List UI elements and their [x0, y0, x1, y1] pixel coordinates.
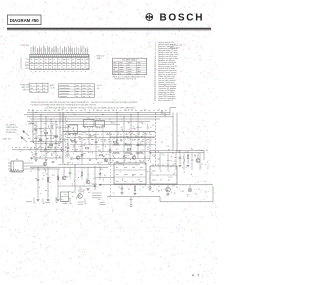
svg-text:R1: R1 — [34, 125, 36, 127]
link wire H2 — [38, 135, 56, 137]
wire bus ACC — [24, 114, 170, 116]
svg-text:D3: D3 — [176, 187, 178, 189]
wire out R1 — [150, 149, 204, 151]
resistor R6 — [99, 154, 102, 156]
transistor Q9 — [43, 162, 46, 165]
resistor R18 (zigzag) — [57, 175, 59, 180]
misc wiring detail (right zone) — [158, 148, 208, 169]
feeder wire V2 — [64, 117, 66, 158]
link wire H3 — [34, 143, 60, 145]
svg-text:R11: R11 — [52, 175, 55, 177]
svg-text:L1: L1 — [185, 152, 187, 154]
diode D2 — [149, 185, 152, 189]
module box A1 — [114, 161, 146, 184]
feeder wire V3 (dashed) — [155, 112, 157, 166]
connector X1 pin ticks — [31, 53, 87, 55]
wire drop BL5 — [94, 166, 96, 190]
svg-text:C5: C5 — [39, 146, 41, 148]
svg-text:R9: R9 — [182, 191, 184, 193]
svg-text:Filter capacitor C8: Filter capacitor C8 — [158, 99, 173, 102]
svg-text:R14: R14 — [100, 169, 103, 171]
wire drop W2 — [40, 115, 42, 152]
wire drop BL1 — [37, 167, 39, 198]
wire drop W4 — [50, 119, 52, 150]
resistor R20 — [81, 167, 83, 180]
wire X4-a — [23, 162, 33, 164]
ground G10 — [166, 194, 169, 196]
wire net N2 — [66, 137, 155, 139]
footnote lines — [30, 101, 137, 110]
title box DIAGRAM #50 — [8, 15, 42, 25]
wire row link — [110, 136, 155, 138]
wire drop M10 — [130, 115, 132, 152]
label MFB right of connector — [97, 56, 106, 60]
svg-text:T2: T2 — [42, 173, 44, 175]
svg-text:AMP /: AMP / — [50, 84, 55, 87]
legend list — [154, 41, 179, 102]
svg-text:R7: R7 — [50, 138, 52, 140]
wire net N1 — [66, 123, 120, 125]
svg-text:C9: C9 — [102, 145, 104, 147]
capacitor C5 — [95, 142, 98, 143]
transistor Q1 — [76, 156, 80, 160]
label row wire — [12, 148, 64, 152]
wire drops right — [160, 153, 200, 170]
svg-text:T1: T1 — [156, 189, 158, 191]
IC U3 — [68, 125, 78, 136]
capacitor C8 — [137, 145, 140, 146]
wire X4-c — [23, 168, 60, 170]
spine wire lower — [30, 140, 63, 142]
wire bus B+ — [27, 111, 170, 113]
wire bus GND — [27, 120, 150, 122]
resistor R19 — [134, 185, 136, 193]
coil L2 — [28, 123, 34, 125]
connector X1 pin numbers — [31, 70, 86, 72]
capacitor C1 — [35, 130, 38, 131]
antenna arrow A1 — [22, 130, 29, 136]
capacitor C6 — [109, 150, 112, 151]
connector X1 terminal bar — [30, 54, 89, 56]
IC U1 — [84, 118, 95, 129]
transistor Q6 — [166, 185, 171, 192]
antenna arrow A2 — [20, 136, 27, 142]
svg-text:8 627 004: 8 627 004 — [21, 45, 29, 47]
wire drop M8 — [116, 112, 118, 144]
resistor R3 (zigzag) — [54, 136, 59, 138]
svg-text:TV5: TV5 — [26, 59, 29, 61]
ground G4 — [186, 165, 189, 167]
diode D1 — [94, 184, 97, 187]
table note — [113, 75, 146, 80]
wire net N6 — [58, 164, 140, 166]
svg-text:C2: C2 — [84, 143, 86, 145]
wire net N5 — [70, 158, 150, 160]
svg-text:31 GND BN: 31 GND BN — [6, 132, 16, 134]
wire drop M11 — [137, 112, 139, 158]
component designators — [30, 121, 200, 193]
svg-text:T1: T1 — [126, 145, 128, 147]
capacitor C13 — [99, 167, 102, 180]
wire to module A1 — [95, 177, 114, 179]
label block Q5 — [92, 193, 102, 198]
section divider (dashed) — [110, 159, 112, 199]
resistor R17 — [47, 178, 49, 182]
connector X1 contact grid — [30, 57, 89, 69]
wire right vert — [203, 150, 205, 160]
svg-text:C3: C3 — [30, 171, 32, 173]
misc wiring detail (bottom-left zone) — [31, 168, 103, 201]
ground G5 — [36, 199, 39, 201]
wire net N4 — [66, 151, 150, 153]
wire drop M4 — [88, 128, 90, 145]
ground G2 — [44, 160, 47, 162]
wire drop M13 — [149, 138, 151, 160]
svg-text:C7: C7 — [92, 130, 94, 132]
misc wiring detail (mid zone) — [31, 122, 156, 166]
module box A2 — [150, 164, 177, 184]
page number — [192, 274, 200, 278]
svg-text:AM3: AM3 — [25, 64, 29, 67]
capacitor C4 — [81, 155, 84, 156]
resistor row R13-R15 — [112, 152, 144, 154]
svg-text:T2: T2 — [120, 141, 122, 143]
resistor row R10-R12 — [112, 144, 144, 146]
svg-text:30: 30 — [154, 100, 156, 102]
bottom bus wire — [30, 166, 108, 168]
svg-text:BOSCH: BOSCH — [160, 13, 205, 24]
resistor R8 — [127, 148, 130, 150]
wire drop M9 — [123, 117, 125, 159]
feeder wire V1 (dashed) — [62, 112, 64, 163]
svg-text:C7: C7 — [163, 155, 165, 157]
wire drop W3 — [45, 117, 47, 158]
wire drop W1 — [35, 121, 37, 158]
svg-text:C7: C7 — [198, 189, 200, 191]
resistor R16 — [187, 150, 189, 164]
connector X1 row labels — [21, 58, 29, 71]
capacitor C12 — [69, 167, 72, 178]
Bosch logo text — [160, 13, 205, 24]
transistor Q8 — [86, 167, 90, 184]
wire drop M12 — [144, 132, 146, 165]
wire drop M7 — [109, 132, 111, 165]
resistor R5 — [85, 147, 88, 149]
svg-text:C9: C9 — [66, 177, 68, 179]
svg-text:T1: T1 — [54, 148, 56, 150]
svg-text:U1: U1 — [87, 118, 89, 120]
svg-text:R7: R7 — [128, 189, 130, 191]
ground G9 — [133, 193, 136, 195]
connector box X4 — [8, 159, 23, 172]
svg-text:CD4: CD4 — [25, 62, 29, 64]
capacitor C9 — [179, 150, 182, 164]
svg-text:R1: R1 — [144, 157, 146, 159]
feeder wire V5 — [176, 112, 178, 152]
resistor R7 — [113, 141, 116, 143]
wire net N3 — [70, 144, 155, 146]
wire link bottom-left — [58, 185, 95, 187]
svg-text:C5: C5 — [167, 146, 169, 148]
wire drop M3 — [81, 138, 83, 165]
long bottom wire — [100, 184, 213, 186]
ground G11 — [86, 189, 89, 191]
transistor Q7 — [62, 167, 66, 180]
svg-text:D3: D3 — [66, 121, 68, 123]
pin table T1 — [30, 83, 49, 92]
svg-text:DIAGRAM #50: DIAGRAM #50 — [10, 18, 40, 23]
svg-text:T2: T2 — [73, 147, 75, 149]
svg-text:R11: R11 — [88, 152, 91, 154]
part number right — [170, 45, 182, 49]
wire drop BL3 — [57, 169, 59, 199]
svg-text:L1: L1 — [99, 137, 101, 139]
link wire H5 — [30, 157, 63, 159]
resistor R4 — [71, 140, 74, 142]
svg-text:FM1: FM1 — [25, 68, 29, 70]
svg-text:** CONNECTOR VIEWED FROM WIRE: ** CONNECTOR VIEWED FROM WIRE SIDE. TERM… — [30, 104, 97, 107]
ground G12 — [98, 184, 101, 186]
ground G6 — [46, 199, 49, 201]
svg-text:C5: C5 — [142, 187, 144, 189]
header rule — [7, 29, 211, 31]
Bosch logo emblem — [146, 14, 153, 21]
ground G1 — [34, 160, 37, 162]
feeder wire left V6 — [32, 110, 34, 143]
svg-text:C2: C2 — [44, 130, 46, 132]
wire drop M2 — [74, 132, 76, 152]
bus junction ticks — [35, 112, 138, 122]
capacitor C3 — [67, 148, 70, 149]
svg-text:R7: R7 — [98, 150, 100, 152]
ground G3 — [178, 165, 181, 167]
capacitor C14 — [52, 162, 55, 163]
connector stub P7 — [129, 197, 133, 207]
feeder wire V4 — [172, 112, 174, 150]
misc wiring detail (bottom-right zone) — [122, 164, 207, 197]
svg-text:C2: C2 — [150, 140, 152, 142]
ground G7 — [56, 199, 59, 201]
wire drop BL2 — [47, 167, 49, 198]
svg-text:ENGINE OFF, IGNITION ON: ENGINE OFF, IGNITION ON — [115, 79, 137, 81]
svg-text:D3: D3 — [140, 151, 142, 153]
transistor Q3 — [132, 156, 136, 160]
wire drop W6 — [59, 112, 61, 144]
connector X1 pin labels (rotated) — [31, 46, 88, 53]
wire drop M1 — [67, 138, 69, 159]
svg-text:R11: R11 — [127, 138, 130, 140]
voltage table — [113, 58, 147, 74]
mid label block — [50, 84, 56, 90]
wire X4-b — [23, 165, 46, 167]
link wire H1 — [34, 127, 50, 129]
resistor R1 — [45, 132, 48, 134]
svg-text:4: 4 — [192, 274, 194, 278]
svg-text:C ANT 75Ω: C ANT 75Ω — [2, 137, 12, 140]
svg-text:R7: R7 — [161, 142, 163, 144]
wire drop BL4 — [74, 164, 76, 186]
svg-text:R9: R9 — [79, 134, 81, 136]
capacitor C2 — [40, 140, 43, 141]
svg-text:R1: R1 — [70, 140, 72, 142]
svg-text:C2: C2 — [118, 187, 120, 189]
svg-text:X4: X4 — [16, 159, 18, 161]
svg-text:D1: D1 — [116, 149, 118, 151]
svg-text:7: 7 — [197, 274, 199, 278]
main spine wire — [63, 131, 155, 133]
IC U2 — [96, 119, 105, 129]
ground G8 — [120, 193, 123, 195]
wire drop W5 — [55, 121, 57, 158]
left terminal designations — [6, 124, 19, 135]
relay box K1 — [61, 192, 69, 202]
svg-text:REF 5V: REF 5V — [23, 89, 30, 91]
bottom border step — [107, 186, 213, 202]
svg-text:* WIRING SHOWN FOR VEHICLES WI: * WIRING SHOWN FOR VEHICLES WITH FACTORY… — [30, 101, 137, 104]
tuner label block — [20, 84, 30, 92]
svg-text:U2: U2 — [99, 119, 101, 121]
bus labels — [28, 109, 167, 110]
wire bus MUTE — [30, 118, 160, 120]
wire drop M5 — [95, 132, 97, 159]
svg-text:R1: R1 — [104, 175, 106, 177]
wire bus ILL — [27, 116, 165, 118]
transistor Q2 — [104, 158, 108, 162]
capacitor C11 — [121, 185, 124, 192]
svg-text:L1: L1 — [36, 132, 38, 134]
pin table T2 — [59, 84, 95, 98]
label speaker LF — [26, 197, 106, 204]
transistor Q5 — [75, 186, 82, 198]
bus right bracket — [165, 108, 176, 117]
capacitor C7 — [123, 156, 126, 157]
svg-text:R9: R9 — [158, 159, 160, 161]
wire out R2 — [150, 152, 204, 154]
part number left — [21, 45, 29, 47]
svg-text:CD IN: CD IN — [50, 87, 56, 89]
svg-text:D1: D1 — [147, 147, 149, 149]
resistor R2 — [50, 144, 53, 146]
capacitor C10 — [37, 180, 40, 181]
lamp E1 — [188, 185, 192, 192]
svg-text:C3: C3 — [58, 145, 60, 147]
antenna coil squiggle — [9, 169, 24, 172]
value notes right of T2 — [97, 85, 103, 90]
transistor Q4 — [196, 153, 200, 163]
left label row — [2, 137, 54, 140]
link wire H4 — [40, 151, 63, 153]
wire drop M6 — [102, 129, 104, 152]
connector node P5 — [161, 111, 166, 115]
